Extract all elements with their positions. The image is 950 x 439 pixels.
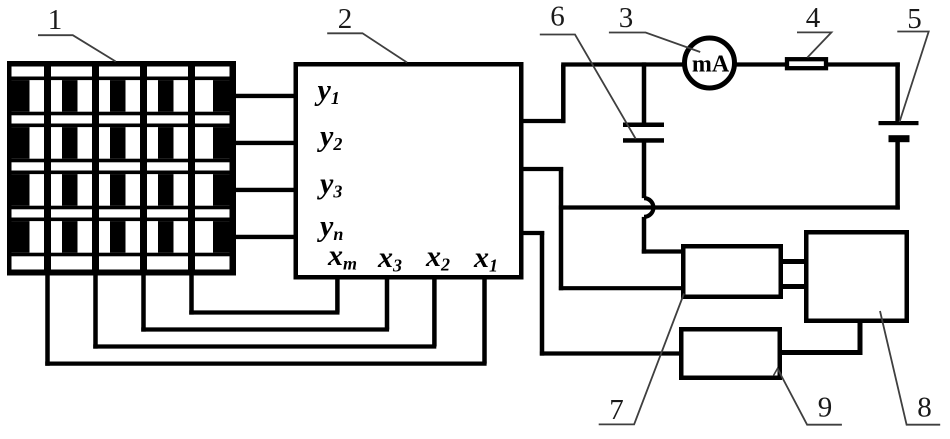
- svg-text:2: 2: [338, 3, 353, 35]
- svg-text:7: 7: [609, 394, 624, 426]
- svg-text:1: 1: [48, 4, 63, 36]
- svg-text:3: 3: [619, 2, 634, 34]
- svg-text:8: 8: [917, 392, 932, 424]
- svg-text:4: 4: [806, 2, 821, 34]
- svg-text:9: 9: [818, 392, 833, 424]
- svg-text:6: 6: [550, 1, 565, 33]
- svg-text:mA: mA: [692, 52, 730, 78]
- svg-text:5: 5: [907, 3, 922, 35]
